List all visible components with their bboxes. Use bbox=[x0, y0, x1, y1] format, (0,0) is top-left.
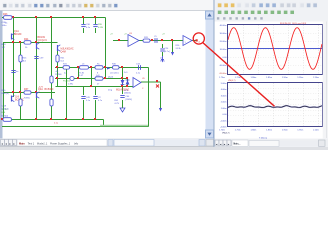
lower legend bbox=[222, 133, 230, 135]
wire v66 bbox=[66, 68, 68, 120]
svg-text:R37: R37 bbox=[24, 88, 29, 91]
resistor R25 vertical low bbox=[19, 99, 22, 106]
lower plot frame and grid bbox=[228, 83, 323, 127]
svg-text:Info: Info bbox=[74, 142, 79, 145]
power marker 1 bbox=[110, 34, 113, 36]
buffer U2 bbox=[183, 36, 192, 46]
inductor L3 bbox=[79, 64, 89, 78]
wire v20 bbox=[20, 43, 22, 120]
resistor R23 bbox=[3, 13, 12, 25]
svg-text:20.00m: 20.00m bbox=[220, 41, 227, 43]
svg-text:2.00m: 2.00m bbox=[221, 102, 227, 104]
label C-18 bbox=[2, 106, 9, 111]
svg-text:Nois...: Nois... bbox=[234, 144, 241, 146]
upper legend bbox=[228, 80, 236, 82]
svg-text:Test 1: Test 1 bbox=[28, 142, 35, 145]
svg-text:J.1.1.1: J.1.1.1 bbox=[2, 109, 9, 111]
capacitor C28 bbox=[154, 36, 158, 43]
schematic canvas bbox=[3, 11, 206, 138]
svg-text:1.90m: 1.90m bbox=[282, 129, 288, 131]
capacitor C49 bbox=[81, 97, 91, 102]
svg-text:2.10m: 2.10m bbox=[313, 77, 319, 79]
svg-text:1.85m: 1.85m bbox=[266, 129, 272, 131]
output arrow bbox=[107, 67, 110, 70]
wire rail7 bbox=[3, 92, 55, 94]
wire bottom pale band bbox=[100, 125, 148, 127]
left pane toolbar background bbox=[0, 0, 213, 11]
wire bottom rail A bbox=[2, 119, 104, 121]
svg-text:R23: R23 bbox=[3, 13, 8, 16]
svg-text:5m: 5m bbox=[16, 71, 19, 73]
svg-text:VM(4,7): VM(4,7) bbox=[222, 133, 230, 135]
transistor Q4 bbox=[12, 95, 25, 101]
capacitor C24 bbox=[160, 44, 170, 62]
power marker 2 bbox=[124, 34, 127, 36]
annotation line bbox=[203, 43, 275, 107]
status bar bbox=[0, 147, 328, 151]
capacitor C64 bbox=[114, 96, 132, 105]
resistor R36 bbox=[111, 64, 120, 75]
capacitor C36 bbox=[81, 24, 91, 29]
svg-text:1.70m: 1.70m bbox=[219, 77, 225, 79]
wire v122 mid bbox=[122, 68, 124, 79]
svg-text:1.75m: 1.75m bbox=[235, 77, 241, 79]
resistor R32 bbox=[95, 77, 103, 86]
resistor R41 vertical bbox=[56, 55, 65, 62]
svg-text:B-Y(ld): B-Y(ld) bbox=[2, 116, 9, 118]
toolbar icons left pane bbox=[2, 3, 118, 9]
wire v51 bbox=[51, 18, 53, 120]
svg-text:19/24E: 19/24E bbox=[55, 74, 62, 76]
resistor R37 bbox=[24, 88, 31, 99]
svg-text:1.00m: 1.00m bbox=[221, 108, 227, 110]
wire v83 low bbox=[83, 87, 85, 96]
svg-text:2.10m: 2.10m bbox=[313, 129, 319, 131]
wire top rail bbox=[2, 17, 106, 19]
noise waveform bbox=[228, 106, 322, 108]
capacitor C33 bbox=[136, 64, 141, 75]
svg-text:0.5W: 0.5W bbox=[98, 27, 103, 29]
upper plot y labels bbox=[219, 25, 227, 75]
resistor R28 bbox=[143, 37, 150, 42]
schematic vertical scrollbar bbox=[206, 11, 214, 138]
upper plot title bbox=[280, 23, 307, 25]
wire v83 low2 bbox=[83, 100, 85, 120]
wire diode branch 2 bbox=[127, 79, 129, 87]
svg-text:R/N2(4): R/N2(4) bbox=[2, 93, 10, 95]
svg-text:1M: 1M bbox=[2, 47, 5, 49]
diode D4 bbox=[121, 80, 125, 85]
scrollbar arrows bbox=[207, 13, 211, 136]
left window edge strip bbox=[0, 11, 3, 147]
svg-text:-5.2V: -5.2V bbox=[114, 103, 120, 105]
svg-text:30.00m: 30.00m bbox=[220, 33, 227, 35]
potentiometer R26 bbox=[176, 45, 182, 50]
junction dot 172 bbox=[161, 39, 173, 41]
svg-text:1.70m: 1.70m bbox=[219, 129, 225, 131]
wire rail2 bbox=[3, 42, 58, 44]
right window scroll edge bbox=[323, 22, 328, 139]
capacitor C37 bbox=[93, 24, 103, 29]
svg-text:BC546C: BC546C bbox=[45, 88, 54, 91]
svg-text:[1M24]: [1M24] bbox=[126, 99, 133, 101]
resistor R29 vertical bbox=[50, 76, 53, 83]
svg-text:-2.00m: -2.00m bbox=[220, 127, 227, 129]
svg-text:100n: 100n bbox=[2, 25, 8, 27]
wire corner A bbox=[103, 120, 105, 127]
svg-text:1.95m: 1.95m bbox=[297, 129, 303, 131]
resistor R24 bbox=[24, 38, 31, 49]
diagram window toolbar row2 bbox=[217, 9, 295, 15]
svg-text:BD139: BD139 bbox=[14, 33, 22, 36]
diagram tab bar bbox=[215, 139, 328, 147]
svg-text:1.80m: 1.80m bbox=[251, 129, 257, 131]
wire v105 bbox=[105, 18, 107, 79]
annotation circle bbox=[193, 33, 204, 44]
svg-text:1.80m: 1.80m bbox=[251, 77, 257, 79]
wire v148 bbox=[148, 68, 150, 127]
svg-text:1.75m: 1.75m bbox=[235, 129, 241, 131]
wire left vertical bbox=[3, 43, 5, 120]
svg-text:-10.00m: -10.00m bbox=[219, 65, 227, 67]
wire opamp input bbox=[113, 40, 128, 42]
svg-text:40.00m: 40.00m bbox=[220, 25, 227, 27]
capacitor C39 on v36 bbox=[34, 57, 44, 60]
wire v95 low2 bbox=[95, 100, 97, 120]
svg-text:R24: R24 bbox=[24, 38, 29, 41]
upper plot x labels bbox=[219, 77, 319, 79]
wire rail6 bbox=[56, 86, 134, 88]
wire v122 low bbox=[122, 87, 124, 95]
wire v57 bbox=[57, 48, 59, 87]
resistor Rs bbox=[95, 64, 103, 78]
wire v95 top2 bbox=[95, 28, 97, 33]
resistor R31 bbox=[63, 64, 70, 75]
upper plot frame and grid bbox=[228, 25, 323, 75]
svg-text:-20.00m: -20.00m bbox=[219, 73, 227, 75]
svg-text:[4w2]: [4w2] bbox=[108, 76, 113, 78]
op-amp U5 bbox=[133, 78, 146, 91]
svg-text:10.00m: 10.00m bbox=[220, 49, 227, 51]
wire v160 bbox=[160, 82, 162, 108]
arrow v172 bbox=[171, 52, 174, 56]
lower plot y labels bbox=[220, 83, 227, 129]
diagram window toolbar row3 bbox=[216, 16, 265, 21]
label 4w2 bbox=[108, 76, 113, 78]
resistor R25 mid vertical bbox=[19, 55, 27, 62]
capacitor C50 bbox=[93, 97, 103, 102]
plot panel background bbox=[215, 22, 326, 139]
svg-text:3.00m: 3.00m bbox=[221, 95, 227, 97]
wire v95 low bbox=[95, 87, 97, 96]
sine waveform bbox=[228, 28, 322, 70]
capacitor C41 bbox=[11, 71, 18, 74]
wire rail4 bbox=[55, 78, 128, 80]
current probe X bbox=[156, 85, 159, 88]
transistor Q2 bbox=[37, 36, 48, 49]
zero axis line bbox=[228, 48, 322, 50]
svg-text:[4.7u]: [4.7u] bbox=[165, 51, 171, 53]
wire buffer to probe bbox=[192, 40, 197, 42]
resistor R27 vertical bbox=[50, 99, 53, 106]
wire v122 low2 bbox=[122, 100, 124, 108]
x axis title bbox=[259, 138, 267, 140]
probe out bbox=[196, 39, 201, 43]
svg-text:Mode1_1: Mode1_1 bbox=[37, 142, 48, 145]
port arrow down bbox=[161, 56, 164, 63]
lower plot x labels bbox=[219, 129, 319, 131]
wire bottom rail B bbox=[2, 126, 149, 128]
svg-text:Main: Main bbox=[19, 142, 25, 145]
svg-text:R7(N): R7(N) bbox=[24, 97, 30, 99]
diode D5 bbox=[126, 80, 130, 85]
svg-text:VM(4,7): VM(4,7) bbox=[228, 80, 236, 82]
resistor R38 bbox=[2, 109, 12, 121]
label R33 bbox=[2, 44, 7, 49]
svg-text:-1.00m: -1.00m bbox=[220, 120, 227, 122]
svg-text:Power Supplies_1: Power Supplies_1 bbox=[50, 142, 71, 145]
wire diode branch 1 bbox=[122, 79, 124, 87]
diagram window frame bbox=[214, 0, 328, 147]
svg-text:[1mohm]: [1mohm] bbox=[111, 72, 119, 74]
svg-text:Q4M: Q4M bbox=[61, 50, 66, 53]
label 0.1u red bbox=[54, 123, 59, 125]
label 56.8 bbox=[124, 90, 131, 95]
transistor Q1 bbox=[12, 30, 22, 40]
svg-text:-4.2V: -4.2V bbox=[38, 87, 44, 89]
app background bbox=[0, 0, 328, 150]
svg-text:1.89u: 1.89u bbox=[68, 83, 74, 85]
wire v91 bbox=[91, 68, 93, 87]
svg-text:1.90m: 1.90m bbox=[282, 77, 288, 79]
page tab bar bbox=[0, 139, 214, 147]
transistor label MJL bbox=[116, 89, 129, 92]
wire v78 bbox=[78, 68, 80, 79]
label -4.2V bbox=[38, 87, 44, 89]
label group left mid bbox=[55, 71, 71, 83]
svg-text:[1M24]: [1M24] bbox=[124, 93, 131, 95]
svg-text:Q4 Q2-9: Q4 Q2-9 bbox=[38, 39, 48, 42]
wire rail3 bbox=[55, 67, 149, 69]
transistor Q5 bbox=[37, 88, 54, 98]
transistor Q3 bbox=[58, 45, 74, 54]
wire v95 top bbox=[95, 18, 97, 25]
wire opamp to buffer bbox=[139, 40, 183, 42]
label R30 bbox=[2, 90, 10, 95]
label D-9 bbox=[124, 72, 128, 74]
svg-text:5.00m: 5.00m bbox=[221, 83, 227, 85]
junction dots bbox=[1, 16, 158, 120]
wire v13 bbox=[13, 18, 15, 98]
op-amp U1 bbox=[128, 35, 139, 47]
svg-text:4.00m: 4.00m bbox=[221, 89, 227, 91]
ground arrow v160 bbox=[159, 108, 162, 112]
svg-text:MJL4302AG: MJL4302AG bbox=[116, 89, 129, 92]
svg-text:1.85m: 1.85m bbox=[266, 77, 272, 79]
svg-text:75.81: 75.81 bbox=[79, 72, 85, 74]
wire v83 top2 bbox=[83, 28, 85, 33]
svg-text:1.95m: 1.95m bbox=[297, 77, 303, 79]
wire v172 bbox=[172, 41, 174, 53]
capacitor C40 bbox=[68, 76, 74, 85]
op-amp U1 label bbox=[129, 33, 133, 35]
wire opamp2 out bbox=[141, 81, 161, 83]
svg-text:Rs: Rs bbox=[97, 64, 100, 66]
wire v83 top bbox=[83, 18, 85, 25]
capacitor C38 label bbox=[2, 22, 8, 27]
power marker 3 bbox=[162, 34, 165, 36]
wire v36 bbox=[36, 18, 38, 120]
label 2mg bbox=[108, 90, 113, 92]
ground bbox=[120, 108, 125, 112]
diagram window toolbar row1 bbox=[217, 2, 318, 8]
